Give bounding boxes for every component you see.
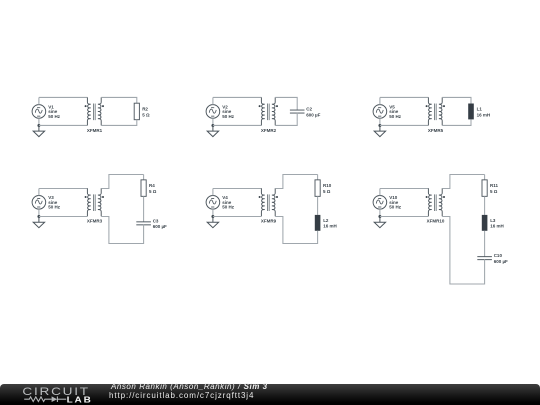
wire (38, 97, 40, 104)
wire (101, 97, 137, 103)
resistor R2 (134, 103, 150, 120)
svg-text:XFMR10: XFMR10 (427, 219, 445, 224)
resistor R10 (315, 180, 332, 197)
wire (442, 217, 484, 285)
transformer XFMR10 (426, 188, 445, 223)
wire (39, 216, 88, 218)
wire (101, 120, 137, 126)
inductor L2 (315, 215, 337, 231)
wire (212, 97, 214, 104)
node junction (211, 124, 214, 127)
logo diode triangle (52, 396, 58, 402)
wire (143, 196, 145, 221)
voltage source V4 (206, 195, 235, 210)
wire (101, 217, 143, 244)
svg-text:XFMR9: XFMR9 (261, 219, 277, 224)
capacitor C2 (290, 106, 321, 117)
svg-text:50 Hz: 50 Hz (389, 114, 402, 119)
wire (38, 118, 40, 125)
resistor R11 (482, 180, 499, 197)
svg-text:R4: R4 (149, 183, 155, 188)
wire (213, 124, 262, 126)
node junction (378, 124, 381, 127)
svg-text:5 Ω: 5 Ω (490, 189, 498, 194)
svg-text:C10: C10 (494, 253, 503, 258)
wire (212, 209, 214, 216)
wire (213, 188, 262, 190)
wire (380, 188, 429, 190)
capacitor C10 (477, 253, 508, 264)
svg-text:600 µF: 600 µF (153, 224, 167, 229)
voltage source V5 (373, 104, 402, 119)
wire (380, 216, 429, 218)
resistor R4 (141, 180, 157, 197)
footer credit line (111, 383, 268, 391)
node junction (37, 124, 40, 127)
wire (317, 196, 319, 215)
svg-text:XFMR3: XFMR3 (87, 219, 103, 224)
transformer XFMR3 (85, 188, 104, 223)
ground (374, 217, 385, 228)
wire (39, 96, 88, 98)
wire (379, 97, 381, 104)
svg-text:5 Ω: 5 Ω (142, 112, 150, 117)
svg-text:XFMR2: XFMR2 (261, 128, 277, 133)
svg-text:XFMR1: XFMR1 (87, 128, 103, 133)
wire (442, 97, 471, 103)
wire (212, 189, 214, 196)
voltage source V3 (32, 195, 61, 210)
ground (33, 217, 44, 228)
wire (484, 231, 486, 257)
svg-text:50 Hz: 50 Hz (48, 114, 61, 119)
footer bar (0, 384, 540, 405)
wire (38, 189, 40, 196)
wire (442, 175, 484, 189)
ground (374, 125, 385, 136)
wire (213, 216, 262, 218)
wire (275, 113, 297, 126)
svg-text:600 µF: 600 µF (494, 259, 508, 264)
wire (484, 196, 486, 215)
wire (39, 124, 88, 126)
svg-text:50 Hz: 50 Hz (389, 205, 402, 210)
svg-text:L2: L2 (323, 218, 329, 223)
svg-text:50 Hz: 50 Hz (48, 205, 61, 210)
wire (39, 188, 88, 190)
wire (317, 175, 319, 180)
wire (213, 96, 262, 98)
inductor L3 (482, 215, 504, 231)
svg-text:L3: L3 (490, 218, 496, 223)
wire (275, 97, 297, 110)
ground (33, 125, 44, 136)
svg-text:R10: R10 (323, 183, 332, 188)
svg-text:5 Ω: 5 Ω (323, 189, 331, 194)
svg-text:C2: C2 (306, 106, 312, 111)
node junction (378, 215, 381, 218)
transformer XFMR2 (259, 97, 278, 132)
ground (207, 217, 218, 228)
svg-text:600 µF: 600 µF (306, 112, 320, 117)
svg-text:5 Ω: 5 Ω (149, 189, 157, 194)
wire (212, 118, 214, 125)
svg-text:50 Hz: 50 Hz (222, 114, 235, 119)
wire (484, 175, 486, 180)
svg-text:XFMR5: XFMR5 (428, 128, 444, 133)
wire (379, 209, 381, 216)
footer url (109, 392, 254, 400)
node junction (211, 215, 214, 218)
voltage source V10 (373, 195, 402, 210)
logo resistor zigzag and diode (24, 396, 66, 402)
wire (380, 96, 429, 98)
wire (380, 124, 429, 126)
wire (38, 209, 40, 216)
wire (275, 175, 317, 189)
svg-text:16 mH: 16 mH (490, 224, 504, 229)
node junction (37, 215, 40, 218)
svg-text:L1: L1 (477, 106, 483, 111)
svg-text:C3: C3 (153, 218, 159, 223)
svg-text:LAB: LAB (67, 395, 93, 404)
transformer XFMR9 (259, 188, 278, 223)
voltage source V2 (206, 104, 235, 119)
wire (275, 217, 317, 244)
CircuitLab logo (0, 384, 100, 405)
wire (379, 189, 381, 196)
wire (143, 175, 145, 180)
ground (207, 125, 218, 136)
capacitor C3 (136, 218, 167, 229)
svg-text:50 Hz: 50 Hz (222, 205, 235, 210)
transformer XFMR5 (426, 97, 445, 132)
svg-text:R2: R2 (142, 106, 148, 111)
voltage source V1 (32, 104, 61, 119)
wire (101, 175, 143, 189)
svg-text:R11: R11 (490, 183, 499, 188)
svg-text:16 mH: 16 mH (323, 224, 337, 229)
inductor L1 (468, 104, 490, 120)
wire (442, 119, 471, 125)
svg-text:16 mH: 16 mH (477, 112, 491, 117)
transformer XFMR1 (85, 97, 104, 132)
wire (379, 118, 381, 125)
